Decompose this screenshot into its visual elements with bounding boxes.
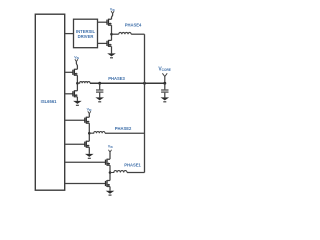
node C3 junction dot: [98, 82, 101, 85]
wire IC LGATE2 to Q4 gate: [65, 143, 85, 145]
ground phase 2 low side: [85, 154, 94, 158]
wire driver UGATE to Q7 gate: [98, 21, 108, 23]
wire Q1 source to Q2 drain (switch node 1): [109, 165, 111, 180]
svg-text:PHASE4: PHASE4: [125, 22, 142, 27]
supply VIN phase 3 arrow: [75, 59, 78, 69]
wire IC UGATE1 to Q1 gate: [65, 161, 106, 163]
transistor Q3 upper MOSFET phase 2: [85, 117, 90, 124]
ground phase 3 low side: [73, 101, 82, 105]
node Vcore junction dot: [163, 82, 166, 85]
wire IC PWM4 output to driver input: [65, 33, 74, 35]
driver U2 box: [74, 19, 98, 48]
wire L3 to Vcore node (output line): [90, 82, 165, 84]
svg-text:PHASE1: PHASE1: [124, 162, 141, 167]
svg-text:VCORE: VCORE: [158, 66, 171, 72]
wire IC UGATE3 to Q5 gate: [65, 71, 73, 73]
ground C out: [161, 97, 170, 101]
transistor Q7 upper MOSFET phase 4: [107, 19, 112, 26]
PHASE4 net label: [125, 22, 142, 27]
supply VIN phase 2 arrow: [88, 111, 91, 117]
wire IC UGATE2 to Q3 gate: [65, 119, 85, 121]
supply VIN phase 2 label: [87, 108, 92, 113]
capacitor C3: [96, 83, 103, 97]
wire L4 to Vcore rail: [131, 33, 144, 35]
wire IC LGATE3 to Q6 gate: [65, 93, 73, 95]
driver U2 label INTERSIL DRIVER: [76, 29, 96, 39]
wire switch node 4 to L4: [112, 33, 119, 35]
wire Q6 source to ground: [76, 97, 78, 101]
node switch 1 junction dot: [109, 171, 112, 174]
controller IC U1 label ISL6561: [41, 99, 58, 104]
wire L2 to Vcore rail: [105, 132, 145, 134]
wire driver LGATE to Q8 gate: [98, 42, 108, 44]
Vcore rail vertical wire: [144, 34, 146, 172]
supply VIN phase 3 label: [74, 55, 79, 60]
svg-text:ISL6561: ISL6561: [41, 99, 58, 104]
supply VIN phase 4 label: [110, 7, 115, 12]
controller IC U1 box: [35, 14, 64, 190]
Vcore rail cross junction dot: [143, 82, 146, 85]
wire L1 to Vcore rail: [127, 172, 145, 174]
transistor Q8 lower MOSFET phase 4: [107, 40, 112, 47]
wire Q7 source to Q8 drain (switch node 4): [111, 25, 113, 40]
transistor Q1 upper MOSFET phase 1: [106, 159, 111, 166]
inductor L2: [89, 132, 105, 134]
ground C3: [95, 97, 104, 101]
svg-text:DRIVER: DRIVER: [78, 34, 94, 39]
ground phase 1 low side: [106, 191, 115, 195]
node switch 2 junction dot: [88, 132, 91, 135]
supply VIN phase 4 arrow: [111, 11, 114, 19]
PHASE1 net label: [124, 162, 141, 167]
inductor L1: [110, 171, 127, 173]
transistor Q6 lower MOSFET phase 3: [73, 90, 78, 97]
node switch 3 junction dot: [76, 82, 79, 85]
transistor Q5 upper MOSFET phase 3: [73, 69, 78, 76]
wire Q8 source to ground: [111, 46, 113, 53]
svg-text:PHASE2: PHASE2: [115, 126, 132, 131]
transistor Q2 lower MOSFET phase 1: [106, 180, 111, 187]
PHASE3 net label: [108, 76, 125, 81]
supply VIN phase 1 arrow: [109, 150, 112, 159]
svg-text:VIN: VIN: [108, 144, 113, 149]
wire Q3 source to Q4 drain (switch node 2): [88, 123, 90, 141]
VCORE arrow: [162, 73, 167, 83]
node switch 4 junction dot: [110, 33, 113, 36]
PHASE2 net label: [115, 126, 132, 131]
wire Q4 source to ground: [88, 147, 90, 154]
supply VIN phase 1 label: [108, 144, 113, 149]
ground phase 4 low side: [107, 53, 116, 57]
wire Q5 source to Q6 drain (switch node 3): [76, 75, 78, 91]
capacitor C out: [161, 83, 168, 97]
wire IC LGATE1 to Q2 gate: [65, 183, 106, 185]
svg-text:PHASE3: PHASE3: [108, 76, 125, 81]
inductor L3: [77, 82, 90, 84]
inductor L4: [119, 32, 131, 34]
transistor Q4 lower MOSFET phase 2: [85, 141, 90, 148]
wire Q2 source to ground: [109, 187, 111, 191]
VCORE net label: [158, 66, 171, 72]
